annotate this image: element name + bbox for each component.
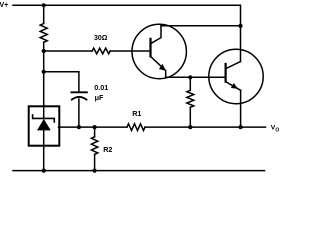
- transistor Q2 collector lead: [226, 62, 241, 69]
- transistor Q1 emitter lead: [151, 56, 166, 77]
- wire capacitor branch horizontal: [44, 72, 79, 92]
- transistor Q2 base bar: [225, 64, 227, 82]
- svg-text:μF: μF: [95, 93, 104, 102]
- transistor Q2 emitter lead: [226, 82, 241, 91]
- junction dot capacitor branch: [42, 70, 46, 74]
- wire capacitor to Vo line: [78, 99, 80, 127]
- wire middle resistor bottom lead: [189, 107, 191, 127]
- svg-text:R2: R2: [103, 145, 112, 154]
- zener diode bar with bent ends: [33, 115, 55, 122]
- junction dot capacitor-Vo: [77, 125, 81, 129]
- resistor (unlabeled, between transistors): [187, 90, 194, 107]
- wire middle resistor top lead: [189, 77, 191, 90]
- wire T1 emitter to T2 base: [166, 76, 226, 78]
- wire Vo line left segment: [59, 126, 128, 128]
- wire 30ohm to T1 base: [110, 50, 150, 52]
- svg-text:30Ω: 30Ω: [94, 35, 108, 42]
- junction dot middle resistor bottom: [188, 125, 192, 129]
- junction dot top rail: [42, 3, 46, 7]
- wire left vertical to zener bar: [43, 42, 45, 118]
- wire Vo line right segment: [145, 126, 266, 128]
- capacitor C top plate: [71, 91, 87, 93]
- junction dot bottom rail left: [42, 169, 46, 173]
- wire top rail V+ to right corner, down to T2 collector: [13, 5, 241, 61]
- wire left vertical branch upper: [43, 5, 45, 23]
- transistor Q1 collector lead: [151, 26, 162, 44]
- capacitor C bottom curved plate: [72, 97, 87, 100]
- transistor Q1 base bar: [149, 39, 151, 57]
- junction dot T2 emitter Vo: [239, 125, 243, 129]
- wire left vertical zener anode to bottom rail: [43, 130, 45, 170]
- junction dot emitter line: [188, 75, 192, 79]
- svg-text:V+: V+: [0, 2, 8, 9]
- transistor Q1 emitter arrowhead: [159, 64, 166, 71]
- wire base line to 30 ohm resistor: [44, 50, 92, 52]
- zener diode triangle: [37, 119, 51, 130]
- junction dot bottom rail R2: [93, 169, 97, 173]
- junction dot collector line right: [238, 24, 242, 28]
- svg-text:R1: R1: [132, 109, 141, 118]
- svg-text:O: O: [275, 128, 279, 134]
- wire R2 bottom lead: [94, 154, 96, 170]
- wire R2 top lead: [94, 127, 96, 137]
- junction dot R2 top: [93, 125, 97, 129]
- transistor Q2 emitter arrowhead: [231, 83, 238, 89]
- resistor R1: [127, 124, 145, 131]
- svg-text:0.01: 0.01: [94, 83, 108, 92]
- resistor 30ohm: [92, 48, 110, 54]
- junction dot base line: [42, 49, 46, 53]
- resistor R2: [91, 137, 97, 155]
- resistor (unlabeled, top left): [40, 24, 47, 43]
- transistor Q1 circle: [132, 24, 186, 78]
- zener box enclosure: [29, 106, 60, 145]
- wire T2 emitter vertical: [240, 90, 242, 127]
- wire bottom rail: [13, 170, 265, 172]
- wire T1 collector horizontal: [161, 25, 241, 27]
- transistor Q2 circle: [209, 49, 263, 103]
